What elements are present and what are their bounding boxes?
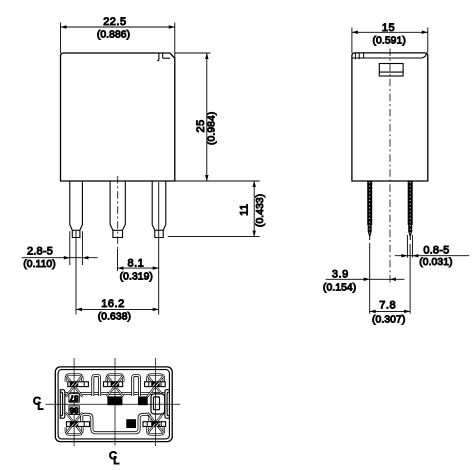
centre line symbol bottom [109,450,119,467]
svg-text:(0.031): (0.031) [419,257,452,268]
bottom view outer case outline [55,367,172,442]
svg-text:15: 15 [382,22,395,34]
dimension 11 (0.433) pin length right side [168,181,266,237]
pin number label 86 [69,406,79,415]
svg-text:7.8: 7.8 [379,300,396,312]
dimension 7.8 (0.307) [370,300,410,326]
svg-text:87a: 87a [108,396,121,405]
svg-text:(0.433): (0.433) [255,194,266,227]
cavity tower post right [133,375,140,396]
svg-text:25: 25 [195,119,207,132]
top pin 87 assembly (bottom view, left) [66,375,89,397]
side view dash-dot centerline [389,49,391,286]
pin 2 (front view, center) [110,181,125,238]
cavity tower post left [93,375,100,396]
pin number label 30 (reversed) [126,419,136,428]
svg-text:(0.110): (0.110) [23,259,56,270]
pin 1 edge extension lines (for 2.8 dim) [70,231,83,265]
pin 2 dash-dot centerline [117,176,119,249]
cavity center tub wall [82,414,150,432]
dimension 0.8-5 (0.031) pin thickness [395,235,469,268]
svg-text:30: 30 [127,419,135,428]
left wall slot (bottom view) [60,390,65,419]
side pin left (filled) [367,181,372,240]
pin 1 (front view, left) [70,181,83,238]
dimension 25 (0.984) body height right side [195,53,218,181]
dimension 15 (0.591) side width [352,22,428,53]
svg-text:85: 85 [139,396,147,405]
right wall slot (bottom view) [165,390,170,419]
svg-text:(0.984): (0.984) [206,112,217,145]
cover vent tick 1 (front) [157,53,159,61]
dimension 22.5 (0.886) top width [61,16,175,59]
cover vent shelf line (front) [163,57,171,59]
svg-text:(0.638): (0.638) [98,311,131,322]
svg-text:2.8-5: 2.8-5 [27,245,53,257]
cover seam line (side view) [352,53,427,58]
dimension 3.9 (0.154) [323,269,404,294]
crosshair centerline vertical pin 85/30 [155,358,157,446]
side pin right (filled) [408,181,413,240]
svg-text:(0.886): (0.886) [97,30,130,41]
label window rectangle (side view) [379,64,403,77]
dimension 8.1 (0.319) pin pitch [118,249,159,283]
pin number label 85 (reversed) [138,396,148,405]
pin 3 (front view, right) [152,181,166,238]
svg-text:(0.154): (0.154) [323,283,356,294]
top edge extension line to 25 dim [175,52,211,54]
pin number label 87 [69,393,79,402]
svg-text:11: 11 [239,203,251,215]
bottom view inner case outline [58,370,169,439]
svg-text:(0.307): (0.307) [372,315,405,326]
right side pin centerline extension [409,244,411,314]
svg-text:86: 86 [69,406,78,415]
left side pin centerline extension [369,243,371,314]
relay body outline (side view) [352,53,428,181]
pin 1 centerline extension (for 16.2 dim) [75,231,77,315]
crosshair centerline vertical pin 87/86 [73,358,75,446]
pin number label 87a (reversed) [107,396,122,405]
bottom pin 86 assembly (bottom view, left) [66,412,90,434]
bottom edge extension line to 11 dim [175,180,260,182]
svg-text:0.8-5: 0.8-5 [423,244,449,256]
crosshair centerline vertical pin 87a (center) [114,358,116,446]
svg-text:8.1: 8.1 [128,257,145,269]
svg-text:(0.591): (0.591) [373,36,406,47]
svg-text:22.5: 22.5 [103,16,126,28]
dimension 2.8-5 (0.110) pin width [22,245,98,270]
pin 3 centerline extension (for 8.1/16.2 dims) [158,182,160,315]
cover vent tick 2 (front) [162,53,164,58]
bottom pin 30 assembly (bottom view, right) [143,412,166,434]
svg-text:(0.319): (0.319) [120,272,153,283]
crosshair centerline horizontal [46,403,181,405]
right slot (bottom view) [151,394,165,414]
top pin 87a assembly (bottom view, center) [104,375,124,397]
dimension 16.2 (0.638) outer pin pitch [76,298,159,322]
svg-text:3.9: 3.9 [332,269,349,281]
svg-text:L: L [113,455,119,467]
cover vent ticks (side view) [355,53,363,59]
svg-text:87: 87 [69,393,78,402]
inner cavity main wall (double line) [60,392,169,395]
svg-text:L: L [37,401,43,413]
relay body outline (front view) [61,53,175,181]
top pin 85 assembly (bottom view, right) [145,375,166,397]
centre line symbol left [33,395,43,412]
svg-text:16.2: 16.2 [101,298,124,310]
